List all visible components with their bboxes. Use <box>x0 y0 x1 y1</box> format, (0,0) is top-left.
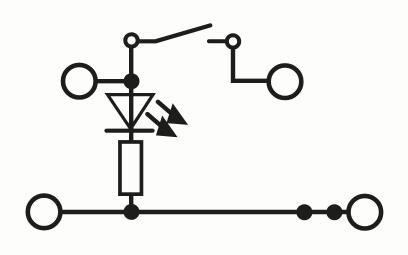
LED D1: emission arrow lower <box>147 114 177 137</box>
wire: upper-left terminal to junction <box>95 79 132 83</box>
node: junction dot upper <box>124 73 140 89</box>
LED D1: emission arrow upper <box>158 102 188 125</box>
wire: bottom rail <box>61 210 347 214</box>
terminal (upper left) <box>63 65 96 98</box>
LED D1: triangle (anode) <box>108 95 154 129</box>
switch S1: right contact circle <box>227 35 239 47</box>
terminal (upper right) <box>269 65 302 98</box>
terminal (lower right) <box>349 196 382 229</box>
LED D1: cathode bar <box>107 129 153 133</box>
node: bridge dot left <box>296 204 312 220</box>
wire: switch right contact down and to upper-right terminal <box>233 46 268 81</box>
terminal (lower left) <box>28 196 61 229</box>
resistor R1 <box>120 142 142 194</box>
node: bridge dot right <box>326 204 342 220</box>
switch S1: left contact circle <box>125 34 137 46</box>
switch S1: blade <box>138 25 210 41</box>
switch S1: right contact stub <box>209 39 226 43</box>
wire: resistor to bottom rail <box>129 195 133 212</box>
node: junction dot lower <box>124 204 140 220</box>
wire: vertical lead from switch through LED to resistor <box>129 44 133 142</box>
